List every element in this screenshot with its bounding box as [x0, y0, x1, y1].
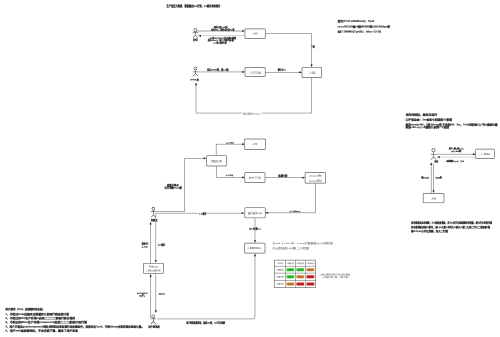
box DBS database server [245, 243, 266, 253]
wire A actor U4 right and up into microservice box [156, 158, 203, 211]
arrow down into DBS top [254, 240, 256, 243]
note block top-right [338, 19, 391, 33]
box B2a app [245, 67, 265, 76]
note list bottom-left [4, 307, 144, 333]
wire right down-flow above audit box [155, 213, 157, 260]
svg-text:⊥+1(8)ms: ⊥+1(8)ms [289, 210, 301, 213]
arrow into B3 left [473, 153, 476, 155]
svg-text:+3B接7(3)8: +3B接7(3)8 [276, 275, 284, 278]
arrow into APP left [242, 176, 245, 178]
label above wire U3 [448, 146, 465, 153]
table row borders [274, 265, 315, 267]
wire cache bottom to DBS top [254, 218, 256, 241]
arrow down into mall box top [432, 190, 434, 193]
wire MS top to gateway HS2 [216, 144, 244, 156]
arrow into MS box left [204, 157, 207, 159]
cell pill red r4c3 [296, 283, 304, 286]
cell pill orange r4c2 [287, 283, 295, 286]
box B3 mall server [476, 149, 495, 159]
arrow up into U3 [430, 162, 432, 165]
svg-text:+3B接(3)9: +3B接(3)9 [276, 268, 284, 271]
arrow up into audit bottom [150, 274, 152, 277]
svg-text:⊥+7(8): ⊥+7(8) [226, 141, 234, 144]
wire actor U3 to mall service box [436, 153, 474, 155]
label loop wire row2 [242, 112, 261, 115]
svg-text:+状态: +状态 [277, 262, 283, 265]
labels on double wire [421, 176, 443, 180]
actor U3 right user [431, 149, 437, 160]
arrow into HS1 left [242, 30, 245, 32]
arrow into HS2 left [242, 143, 245, 145]
cell pill green r2c2 [287, 268, 295, 271]
labels below audit box [137, 292, 166, 298]
wire actor U2 to box B2a [198, 71, 243, 73]
wire B2a to B2b [265, 71, 301, 73]
svg-text:4积8.2: 4积8.2 [308, 276, 313, 279]
wire U3 right down-line to mall box [433, 164, 435, 192]
label wire A [165, 183, 183, 189]
arrow down into B2b top [311, 65, 313, 68]
label 下发 on wire [309, 45, 315, 48]
labels above audit box [142, 242, 166, 249]
box MALL [423, 193, 444, 202]
wire left up-flow below audit box [150, 276, 152, 318]
svg-text:4积8.2: 4积8.2 [298, 276, 303, 279]
box DB compound [305, 172, 326, 183]
svg-text:(4)8μs4: (4)8μs4 [159, 292, 166, 295]
box HS2 gateway [244, 139, 265, 149]
label 1.4B on wire B [199, 212, 207, 215]
cell pill orange r3c3 [296, 275, 304, 278]
arrow into cache box left [242, 212, 245, 214]
box HS1 [245, 29, 265, 39]
actor U4 mid user [151, 207, 156, 217]
wire B2b bottom loop back to actor U2 [196, 78, 312, 114]
svg-text:+3B接7(3)8: +3B接7(3)8 [307, 262, 315, 265]
arrow return left [198, 35, 201, 37]
table column borders [284, 260, 286, 287]
table heat grid [274, 260, 315, 287]
svg-text:+3B接7(3)8: +3B接7(3)8 [276, 283, 284, 286]
svg-text:⊥+7(8): ⊥+7(8) [226, 174, 234, 177]
wire DB bottom down then left to cache box right [267, 183, 316, 213]
pill texts [288, 269, 313, 286]
svg-text:+3B接(3)9: +3B接(3)9 [286, 262, 294, 265]
arrow into DB left [302, 177, 305, 179]
note lines right of DBS [272, 241, 334, 250]
arrow down toward browser actor [155, 310, 157, 313]
arrow return to U3 [437, 156, 440, 158]
wire B junction down-flow start to cache box [156, 212, 243, 214]
cell pill green r2c3 [296, 268, 304, 271]
arrow up below actor U4 [150, 222, 152, 225]
svg-text:4积8.2: 4积8.2 [288, 283, 293, 286]
svg-text:4积8.2: 4积8.2 [298, 269, 303, 272]
arrow up into actor U2 [195, 83, 197, 86]
wire MS bottom to APP box [217, 166, 244, 177]
svg-text:+HS: +HS [253, 144, 258, 146]
label request text row1 [210, 25, 235, 31]
actor U5 browser [151, 315, 157, 324]
actor U1 top-left user [193, 29, 199, 38]
cell pill red r4c4 [307, 283, 315, 286]
box AUDIT interceptor [143, 263, 163, 273]
wire request actor U1 to box HS1 [197, 30, 243, 32]
arrow into B2a left [242, 71, 245, 73]
table header texts [276, 262, 315, 286]
wire APP to DB box [265, 177, 304, 179]
note right of table [320, 272, 350, 279]
wire HS1 right then down to server box B2b [265, 34, 311, 66]
arrow down into audit top [155, 260, 157, 263]
label return text row1 [207, 36, 237, 45]
cell pill orange r2c4 [307, 268, 315, 271]
box CACHE service [245, 208, 265, 218]
actor U2 second row [193, 67, 199, 76]
cell pill red r3c4 [307, 275, 315, 278]
svg-text:4积8.2: 4积8.2 [288, 276, 293, 279]
svg-text:+HS: +HS [253, 34, 258, 36]
svg-text:+3B接7(3)8: +3B接7(3)8 [296, 262, 304, 265]
svg-text:4积8.2: 4积8.2 [298, 283, 303, 286]
arrow up into DBS bottom [254, 254, 256, 257]
svg-text:4积8.2: 4积8.2 [288, 269, 293, 272]
note block bottom-right [411, 221, 493, 233]
arrow into B2b left [299, 71, 302, 73]
wire return HS1 to actor U1 [201, 35, 245, 37]
svg-text:4积8.2: 4积8.2 [308, 269, 313, 272]
wire return B3 to actor U3 [440, 156, 476, 158]
svg-text:4积8.2: 4积8.2 [308, 283, 313, 286]
svg-text:⊥(7)s: ⊥(7)s [142, 245, 149, 248]
wire browser up into DBS bottom [157, 256, 255, 319]
wire U3 left down-line to mall box [430, 165, 432, 194]
arrow into cache right [265, 212, 268, 214]
wire right down-flow below audit box [155, 273, 157, 311]
box MS microservice [207, 156, 227, 166]
cell pill green r3c2 [287, 275, 295, 278]
wire left up-flow above audit box [150, 224, 152, 263]
box APP portal [245, 173, 265, 183]
box B2b server [302, 67, 322, 77]
note block mid-right [406, 113, 499, 129]
svg-text:生产某压力场景：覆盖输出2xx计划，4.2统计耗时统计: 生产某压力场景：覆盖输出2xx计划，4.2统计耗时统计 [167, 4, 221, 8]
label cache-DBS wire [249, 227, 262, 230]
